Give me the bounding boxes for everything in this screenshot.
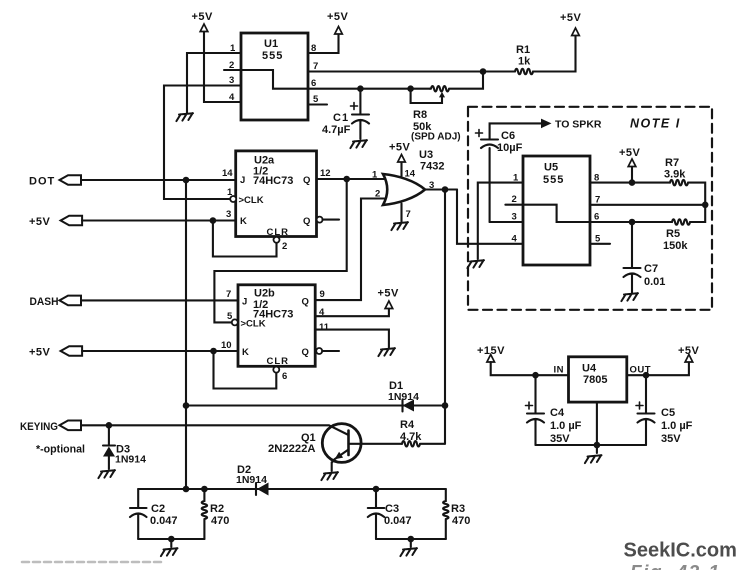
svg-text:74HC73: 74HC73 [253,175,293,187]
svg-text:4.7k: 4.7k [400,431,422,443]
node U1 pin7 junction [480,68,487,75]
svg-text:7: 7 [226,289,231,300]
svg-text:470: 470 [452,515,470,527]
svg-text:K: K [240,216,247,227]
svg-text:0.01: 0.01 [644,276,665,288]
node U4 ground junction [594,442,601,449]
capacitor C5 1.0uF [636,375,693,445]
diode D3 1N914 [103,425,146,469]
svg-text:Fig. 42-1: Fig. 42-1 [630,563,721,570]
faint caption remnant bottom left [22,561,165,564]
node U3 output junction [442,186,449,193]
svg-text:IN: IN [554,365,565,376]
svg-text:35V: 35V [661,433,681,445]
input flag DASH [30,296,82,308]
ground C2 R2 [161,548,178,556]
node D1 line right junction [442,402,449,409]
node U2a Q junction [343,176,350,183]
svg-text:*-optional: *-optional [36,444,85,456]
resistor R5 150k [663,205,705,252]
wire U2a Q to U2b CLK [214,179,346,322]
wire U3 output [425,188,457,190]
svg-text:4.7µF: 4.7µF [322,124,351,136]
U3 labels [372,149,444,220]
svg-text:3: 3 [229,75,234,86]
ground Q1 emitter [321,472,338,480]
svg-text:CLR: CLR [267,356,290,367]
TO SPKR arrow [541,119,602,131]
node U2b CLK bubble [232,319,238,325]
wire U2b Q to OR gate input 2 [315,199,390,301]
svg-text:150k: 150k [663,240,688,252]
svg-text:555: 555 [543,174,564,186]
wire U5 pin2 stub [505,204,523,206]
svg-text:555: 555 [262,50,283,62]
wire U1 pin4 to +5V [204,31,241,102]
node U2b Qbar bubble [316,348,322,354]
svg-text:KEYING: KEYING [20,421,58,433]
U1 pin numbers [229,43,319,105]
wire U5 pin1 to ground [478,183,523,259]
ground C7 [621,293,638,301]
input flag KEYING [20,421,85,456]
svg-text:3: 3 [512,212,517,223]
svg-text:0.047: 0.047 [384,515,412,527]
svg-text:J: J [240,175,245,186]
wire U3 output to U5 pin4 [457,190,523,244]
svg-text:Q: Q [303,175,310,186]
svg-text:+5V: +5V [192,11,214,23]
svg-text:U4: U4 [582,363,597,375]
svg-text:11: 11 [319,322,330,333]
svg-text:2N2222A: 2N2222A [268,443,316,455]
wire left ground stem [170,539,172,547]
svg-text:10: 10 [221,340,232,351]
wire D1 line [186,404,445,406]
svg-text:C4: C4 [550,407,565,419]
power +5V at U1 pin8 [327,11,349,34]
svg-text:0.047: 0.047 [150,515,178,527]
wire U1 pin3 to U2a CLK [164,86,241,200]
svg-text:2: 2 [375,189,380,200]
wire bottom line left [138,538,204,540]
power +5V at R1 [560,12,582,36]
resistor R7 3.9k [664,157,705,205]
flip-flop U2a 74HC73 box [236,151,317,237]
svg-text:R5: R5 [666,228,680,240]
U2b labels [241,288,309,368]
capacitor C7 0.01 [624,222,666,293]
resistor R2 470 [202,489,230,539]
svg-text:U1: U1 [264,38,278,50]
svg-text:6: 6 [311,78,316,89]
svg-text:C5: C5 [661,407,675,419]
diode D1 1N914 [388,380,419,412]
svg-text:+5V: +5V [619,147,641,159]
wire U1 pin6 line [308,88,430,90]
wire U1 pin1 to ground [187,53,241,113]
node R8 wiper junction [407,85,414,92]
svg-text:7805: 7805 [583,374,607,386]
wire U1 pin7 line [308,70,513,72]
node left ground junction [168,536,175,543]
svg-text:U5: U5 [544,162,558,174]
wire +5V to U2a K [82,219,236,221]
wire bottom line right [376,538,446,540]
transistor Q1 2N2222A [268,424,361,471]
svg-text:C1: C1 [333,112,349,124]
node vertical-topline junction [183,486,190,493]
node R7 R5 junction [702,202,709,209]
svg-text:1N914: 1N914 [115,454,146,466]
svg-text:R4: R4 [400,419,415,431]
input flag +5V lower [29,346,82,358]
svg-text:R2: R2 [210,503,224,515]
node U2a CLK bubble [230,196,236,202]
svg-text:3: 3 [226,209,231,220]
svg-text:7: 7 [406,209,411,220]
svg-text:12: 12 [320,168,331,179]
dashed NOTE 1 box [468,107,712,310]
svg-text:C7: C7 [644,263,658,275]
svg-text:SeekIC.com: SeekIC.com [624,540,737,562]
regulator U4 7805 box [569,357,627,402]
svg-text:14: 14 [222,168,233,179]
power +5V at U5 pin8 [619,147,641,183]
wire +5V to U2b K [82,350,238,352]
node C5 junction [643,372,650,379]
U1 label [262,38,283,62]
svg-text:1N914: 1N914 [388,391,419,403]
svg-text:Q: Q [302,297,309,308]
node R2 topline junction [201,486,208,493]
wire U4 out line [627,362,689,375]
svg-text:U2b: U2b [254,288,275,300]
op-amp U5 555 timer box [523,156,590,265]
capacitor C6 10uF [476,123,542,222]
power +5V at U2b pin4 [378,288,400,309]
svg-text:>CLK: >CLK [241,319,266,330]
svg-text:10µF: 10µF [497,142,523,154]
ground U3 [391,222,408,230]
svg-text:C6: C6 [501,130,515,142]
svg-text:R7: R7 [665,157,679,169]
wire bottom RC top line [138,488,446,490]
ground C3 R3 [400,548,417,556]
wire U3 output down to R4 node [444,190,446,444]
node U5 pin6 junction [629,219,636,226]
wire U5 pin7 line [590,204,705,206]
wire U2a CLR loop [213,221,277,257]
node U2a K junction [210,217,217,224]
svg-text:Q: Q [303,216,310,227]
U5 pin numbers [512,173,602,245]
power +5V at U1 pin4 [192,11,214,32]
node U2b CLR bubble [273,367,279,373]
svg-text:1k: 1k [518,56,531,68]
node D1 line left junction [183,402,190,409]
U2a labels [239,155,311,239]
svg-text:R8: R8 [413,109,427,121]
svg-text:5: 5 [313,94,319,105]
U4 labels [554,363,652,387]
svg-text:C3: C3 [385,503,399,515]
svg-text:1.0 µF: 1.0 µF [550,420,582,432]
svg-text:6: 6 [594,212,599,223]
wire U2b Qbar stub [322,350,339,352]
node C4 junction [532,372,539,379]
svg-text:2: 2 [512,194,517,205]
svg-text:Q: Q [302,347,309,358]
wire right ground stem [410,539,412,547]
wire DOT to U2a J [81,179,236,181]
wire U2b pin11 to ground [315,330,389,348]
svg-text:7: 7 [313,61,318,72]
node C1 junction [357,85,364,92]
svg-text:35V: 35V [550,433,570,445]
svg-text:NOTE I: NOTE I [630,117,681,131]
wire U5 pin8 line [590,182,670,184]
svg-text:>CLK: >CLK [239,195,264,206]
svg-text:K: K [242,347,249,358]
ground D3 [98,470,115,478]
resistor R4 4.7k [361,419,445,447]
wire U2b pin4 to +5V [315,309,389,317]
node DOT junction [183,177,190,184]
svg-text:+5V: +5V [678,345,700,357]
svg-text:1N914: 1N914 [236,474,267,486]
wire U5 pin3 to C6 [490,221,523,223]
wire U3 pin14 to +5V [400,162,402,176]
input flag DOT [29,175,81,187]
power +5V at U3 [389,142,411,163]
svg-text:U3: U3 [419,149,433,161]
svg-text:+5V: +5V [560,12,582,24]
ground U4 [585,455,602,463]
svg-text:C2: C2 [151,503,165,515]
ground U1 pin1 [176,113,193,121]
ground C1 [350,140,367,148]
diode D2 1N914 [236,464,269,496]
node D3 junction [106,422,113,429]
wire U5 pin5 stub [590,243,610,245]
wire U5 pin6 line [590,221,672,223]
node U2a CLR bubble [274,237,280,243]
svg-text:2: 2 [282,241,287,252]
input flag +5V upper [29,216,82,228]
U2b pin numbers [221,289,330,382]
svg-text:6: 6 [282,371,287,382]
capacitor C3 0.047 [368,489,412,539]
svg-text:(SPD ADJ): (SPD ADJ) [411,132,461,143]
U5 label [543,162,564,187]
svg-text:1.0 µF: 1.0 µF [661,420,693,432]
or-gate U3 7432 [383,174,425,205]
wire long left vertical [185,180,187,489]
U2a pin numbers [222,168,331,252]
op-amp U1 555 timer box [241,33,308,120]
svg-text:J: J [242,297,247,308]
wire U3 pin7 to ground [400,204,402,222]
svg-text:3.9k: 3.9k [664,169,686,181]
svg-text:+5V: +5V [29,216,51,228]
wire U1 pin5 stub [308,103,327,105]
svg-text:7432: 7432 [420,161,444,173]
wire DASH to U2b J [81,299,238,301]
svg-text:4: 4 [512,234,518,245]
svg-text:1: 1 [372,170,378,181]
capacitor C1 4.7uF [322,89,369,139]
ground U2b pin11 [378,348,395,356]
wire KEYING to Q1 base [81,425,348,434]
flip-flop U2b 74HC73 box [238,285,315,367]
svg-text:DASH: DASH [30,296,59,308]
svg-text:R3: R3 [451,503,465,515]
resistor R3 470 [443,489,470,539]
svg-text:+5V: +5V [389,142,411,154]
svg-text:470: 470 [211,515,229,527]
node U5 pin8 +5V junction [629,179,636,186]
resistor R1 [513,35,576,74]
svg-text:TO SPKR: TO SPKR [555,119,602,131]
power +15V input [477,345,569,375]
wire U2a Qbar stub [323,219,339,221]
svg-text:R1: R1 [516,44,530,56]
wire U2a Q to OR gate input 1 [317,178,391,180]
svg-text:9: 9 [320,289,325,300]
svg-text:+5V: +5V [378,288,400,300]
wire U1 pin2 stub [224,69,241,71]
wire U4 bottom line [536,402,647,453]
node U2a Qbar bubble [317,217,323,223]
node right ground junction [408,536,415,543]
wire U1 pin8 to +5V [308,34,339,54]
capacitor C2 0.047 [130,489,178,539]
svg-text:14: 14 [405,169,416,180]
wire U2b CLR loop [214,351,277,389]
node U2b K junction [210,348,217,355]
node C3 topline junction [373,486,380,493]
svg-text:+5V: +5V [29,347,51,359]
ground U5 pin1 [467,260,484,268]
power +5V output [678,345,700,362]
svg-text:+5V: +5V [327,11,349,23]
resistor R8 50k pot [411,72,483,143]
svg-text:DOT: DOT [29,176,55,188]
capacitor C4 1.0uF [526,375,582,445]
